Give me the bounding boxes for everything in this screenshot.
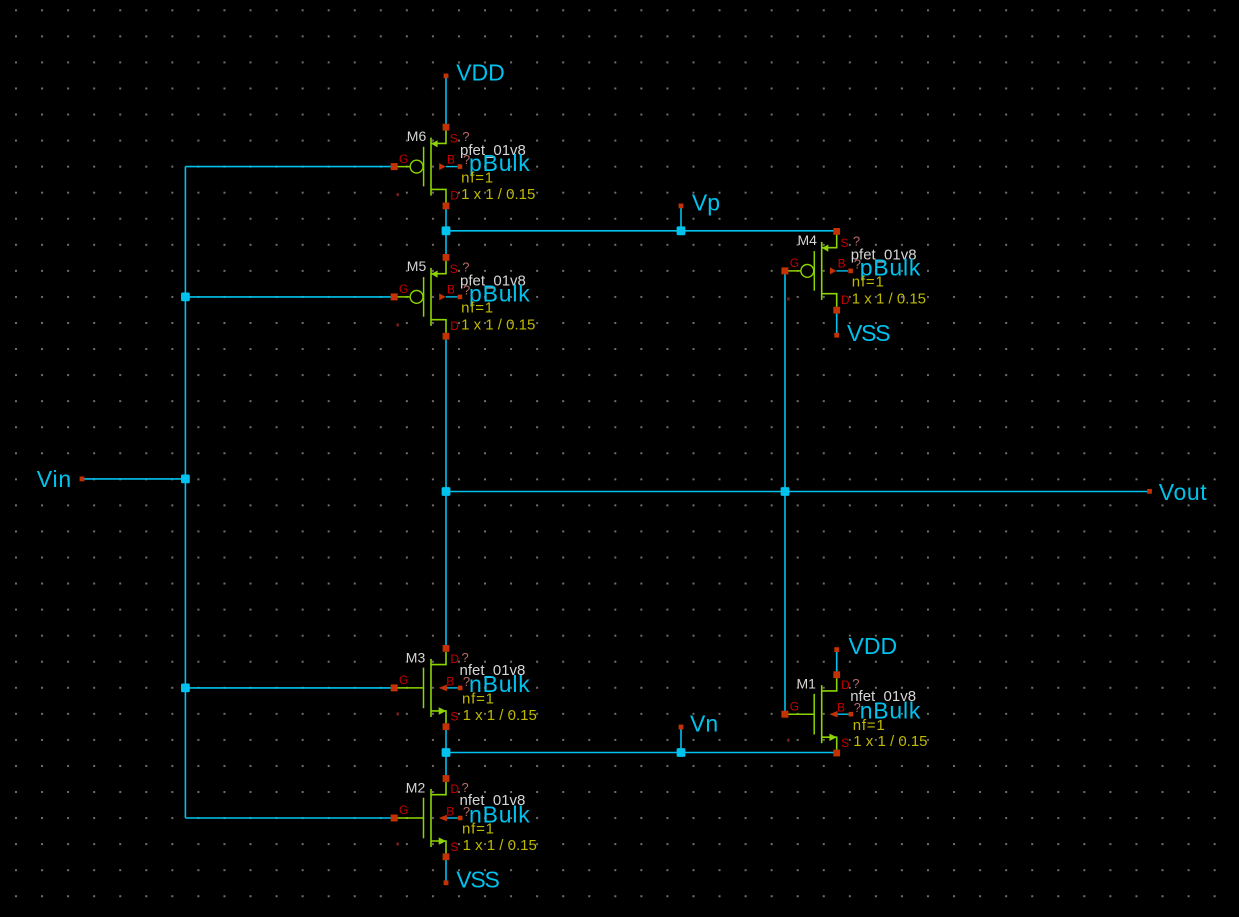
svg-text:Vin: Vin (37, 466, 72, 492)
transistor M4 bulk arrow (830, 267, 837, 274)
transistor M2 gate bar (423, 798, 425, 839)
transistor M5 bulk stub (446, 296, 458, 298)
transistor M6 channel bar (430, 138, 432, 196)
transistor M4 pin D (833, 307, 840, 314)
svg-text:VDD: VDD (456, 59, 505, 85)
svg-text:M2: M2 (406, 780, 426, 796)
transistor M3 drain leg (431, 652, 446, 665)
transistor M6 tick (397, 193, 399, 196)
transistor M5 pin G (391, 293, 398, 300)
svg-text:G: G (790, 256, 799, 270)
transistor M3 nfet_01v8 gate lead (394, 687, 423, 689)
transistor M3 pin B (458, 686, 463, 691)
wire rail to M2 gate (185, 817, 394, 819)
wire M4 gate to M1 gate rail (784, 271, 786, 714)
svg-text:nf=1: nf=1 (461, 169, 494, 186)
svg-text:B: B (446, 674, 454, 688)
svg-text:D: D (450, 319, 459, 333)
transistor M4 bulk stub (836, 270, 848, 272)
transistor M4 pin G (781, 267, 788, 274)
svg-text:1 x 1 / 0.15: 1 x 1 / 0.15 (461, 186, 535, 203)
junction Vn label tap (677, 748, 686, 757)
wire Vn label stub (680, 727, 682, 753)
transistor M5 bulk arrow (439, 293, 446, 300)
svg-text:D: D (841, 678, 850, 692)
transistor M3 gate bar (423, 668, 425, 709)
svg-text:nf=1: nf=1 (462, 691, 495, 708)
transistor M6 gate bubble (410, 160, 423, 173)
transistor M4 gate bar (813, 251, 815, 291)
transistor M6 drain leg (431, 189, 446, 202)
transistor M2 source leg (431, 841, 446, 854)
svg-text:Vout: Vout (1159, 479, 1207, 505)
svg-text:G: G (399, 152, 408, 166)
svg-text:B: B (838, 257, 846, 271)
transistor M1 drain leg (822, 678, 837, 691)
transistor M2 channel bar (430, 789, 432, 847)
wire VDD to M1 drain (836, 650, 838, 675)
transistor M6 pfet_01v8 gate lead (394, 166, 410, 168)
wire node Vout horizontal (446, 491, 1150, 493)
svg-text:G: G (399, 803, 408, 817)
svg-text:G: G (790, 699, 799, 713)
wire M5 drain to M3 drain (node Vout column) (445, 336, 447, 648)
transistor M4 pfet_01v8 gate lead (785, 270, 801, 272)
wire Vin vertical rail (184, 167, 186, 818)
transistor M3 pin S (443, 723, 450, 730)
node Vin pin (80, 477, 85, 482)
transistor M1 nfet_01v8 gate lead (785, 713, 814, 715)
power VDD pin (top) (444, 74, 449, 79)
transistor M2 source arrow (439, 837, 447, 844)
transistor M6 gate bar (423, 147, 425, 187)
svg-text:1 x 1 / 0.15: 1 x 1 / 0.15 (853, 733, 927, 750)
transistor M4 pin S (833, 228, 840, 235)
transistor M1 source leg (822, 737, 837, 750)
junction node Vn at first stage column (442, 748, 451, 757)
svg-text:G: G (399, 282, 408, 296)
svg-text:D: D (450, 782, 459, 796)
wire rail to M6 gate (185, 166, 394, 168)
wire Vp label stub (680, 206, 682, 231)
transistor M3 channel bar (430, 659, 432, 717)
transistor M3 pin G (391, 684, 398, 691)
wire M3 source to M2 drain (node Vn column) (445, 727, 447, 779)
junction rail to M3 gate (181, 684, 190, 693)
node Vn pin (679, 725, 684, 730)
junction node Vin (181, 475, 190, 484)
transistor M4 drain leg (822, 294, 837, 307)
transistor M5 tick (397, 323, 399, 326)
svg-text:1 x 1 / 0.15: 1 x 1 / 0.15 (461, 316, 535, 333)
transistor M5 pfet_01v8 gate lead (394, 296, 410, 298)
junction node Vp at first stage output (442, 226, 451, 235)
junction node Vout at first stage column (442, 487, 451, 496)
transistor M6 pin D (443, 203, 450, 210)
transistor M3 source leg (431, 711, 446, 724)
node Vout pin (1147, 489, 1152, 494)
transistor M5 pin S (443, 254, 450, 261)
wire M6 drain to M5 source (node Vp column) (445, 206, 447, 258)
transistor M5 pin D (443, 333, 450, 340)
svg-text:D: D (450, 189, 459, 203)
transistor M2 pin S (443, 853, 450, 860)
transistor M4 channel bar (821, 242, 823, 300)
transistor M1 gate bar (813, 694, 815, 735)
transistor M4 source arrow (822, 245, 828, 252)
wire rail to M5 gate (185, 296, 394, 298)
svg-text:VDD: VDD (849, 633, 898, 659)
wire M2 source to VSS (445, 857, 447, 883)
transistor M1 tick (787, 739, 789, 742)
node Vp pin (679, 204, 684, 209)
transistor M4 source leg (822, 235, 837, 248)
transistor M1 pin S (833, 750, 840, 757)
transistor M6 pin S (443, 124, 450, 131)
svg-text:nf=1: nf=1 (853, 717, 886, 734)
svg-text:S: S (450, 840, 458, 854)
power VDD pin (above M1) (834, 647, 839, 652)
wire M4 drain to VSS (836, 310, 838, 335)
transistor M2 nfet_01v8 gate lead (394, 817, 423, 819)
svg-text:D: D (450, 652, 459, 666)
transistor M4 tick (787, 297, 789, 300)
transistor M6 bulk arrow (439, 163, 446, 170)
transistor M1 source arrow (829, 734, 837, 741)
transistor M3 bulk stub (447, 687, 458, 689)
transistor M2 pin D (443, 775, 450, 782)
transistor M1 bulk stub (838, 713, 849, 715)
transistor M1 pin D (833, 671, 840, 678)
svg-text:B: B (447, 283, 455, 297)
svg-text:1 x 1 / 0.15: 1 x 1 / 0.15 (463, 707, 537, 724)
transistor M2 pin B (458, 816, 463, 821)
transistor M1 bulk arrow (829, 711, 837, 718)
svg-text:G: G (399, 673, 408, 687)
power VSS pin (below M4) (834, 333, 839, 338)
svg-text:VSS: VSS (456, 866, 499, 892)
svg-text:1 x 1 / 0.15: 1 x 1 / 0.15 (852, 290, 926, 307)
power VSS pin (bottom) (444, 880, 449, 885)
junction Vp label tap (677, 226, 686, 235)
transistor M6 pin G (391, 163, 398, 170)
svg-text:M1: M1 (797, 676, 817, 692)
svg-text:nf=1: nf=1 (462, 821, 495, 838)
svg-text:S: S (450, 710, 458, 724)
svg-text:D: D (841, 293, 850, 307)
svg-text:Vp: Vp (692, 189, 720, 215)
svg-text:S: S (450, 262, 458, 276)
transistor M4 pin B (848, 269, 853, 274)
transistor M5 pin B (458, 295, 463, 300)
transistor M2 drain leg (431, 782, 446, 795)
transistor M3 pin D (443, 645, 450, 652)
transistor M1 pin B (849, 712, 854, 717)
svg-text:B: B (446, 804, 454, 818)
transistor M5 channel bar (430, 268, 432, 326)
transistor M6 bulk stub (446, 166, 458, 168)
svg-text:Vn: Vn (690, 711, 718, 737)
transistor M6 pin B (458, 164, 463, 169)
transistor M2 tick (397, 843, 399, 846)
wire rail to M3 gate (185, 687, 394, 689)
svg-text:B: B (837, 701, 845, 715)
svg-text:S: S (450, 132, 458, 146)
transistor M5 drain leg (431, 320, 446, 333)
transistor M4 gate bubble (801, 265, 814, 278)
svg-text:M4: M4 (798, 232, 818, 248)
svg-text:M6: M6 (407, 128, 427, 144)
svg-text:VSS: VSS (847, 320, 890, 346)
transistor M6 source arrow (431, 140, 437, 147)
transistor M6 source leg (431, 130, 446, 143)
junction Vout to second stage gates (781, 487, 790, 496)
svg-text:S: S (841, 236, 849, 250)
transistor M5 gate bubble (410, 291, 423, 304)
transistor M2 pin G (391, 815, 398, 822)
svg-text:S: S (841, 736, 849, 750)
svg-text:1 x 1 / 0.15: 1 x 1 / 0.15 (463, 837, 537, 854)
transistor M2 bulk stub (447, 817, 458, 819)
svg-text:nf=1: nf=1 (461, 300, 494, 317)
svg-text:M5: M5 (407, 258, 427, 274)
transistor M3 source arrow (439, 707, 447, 714)
transistor M2 bulk arrow (439, 815, 447, 822)
svg-text:nf=1: nf=1 (852, 274, 885, 291)
svg-text:M3: M3 (406, 649, 426, 665)
wire node Vn horizontal (446, 752, 837, 754)
transistor M1 channel bar (821, 685, 823, 743)
wire VDD to M6 source (445, 76, 447, 127)
transistor M5 source arrow (431, 271, 437, 278)
svg-text:B: B (447, 152, 455, 166)
wire node Vp horizontal (446, 230, 837, 232)
junction rail to M5 gate (181, 293, 190, 302)
transistor M5 source leg (431, 261, 446, 274)
wire Vin to rail (82, 478, 185, 480)
transistor M5 gate bar (423, 277, 425, 317)
transistor M3 bulk arrow (439, 685, 447, 692)
transistor M1 pin G (781, 711, 788, 718)
transistor M3 tick (397, 712, 399, 715)
